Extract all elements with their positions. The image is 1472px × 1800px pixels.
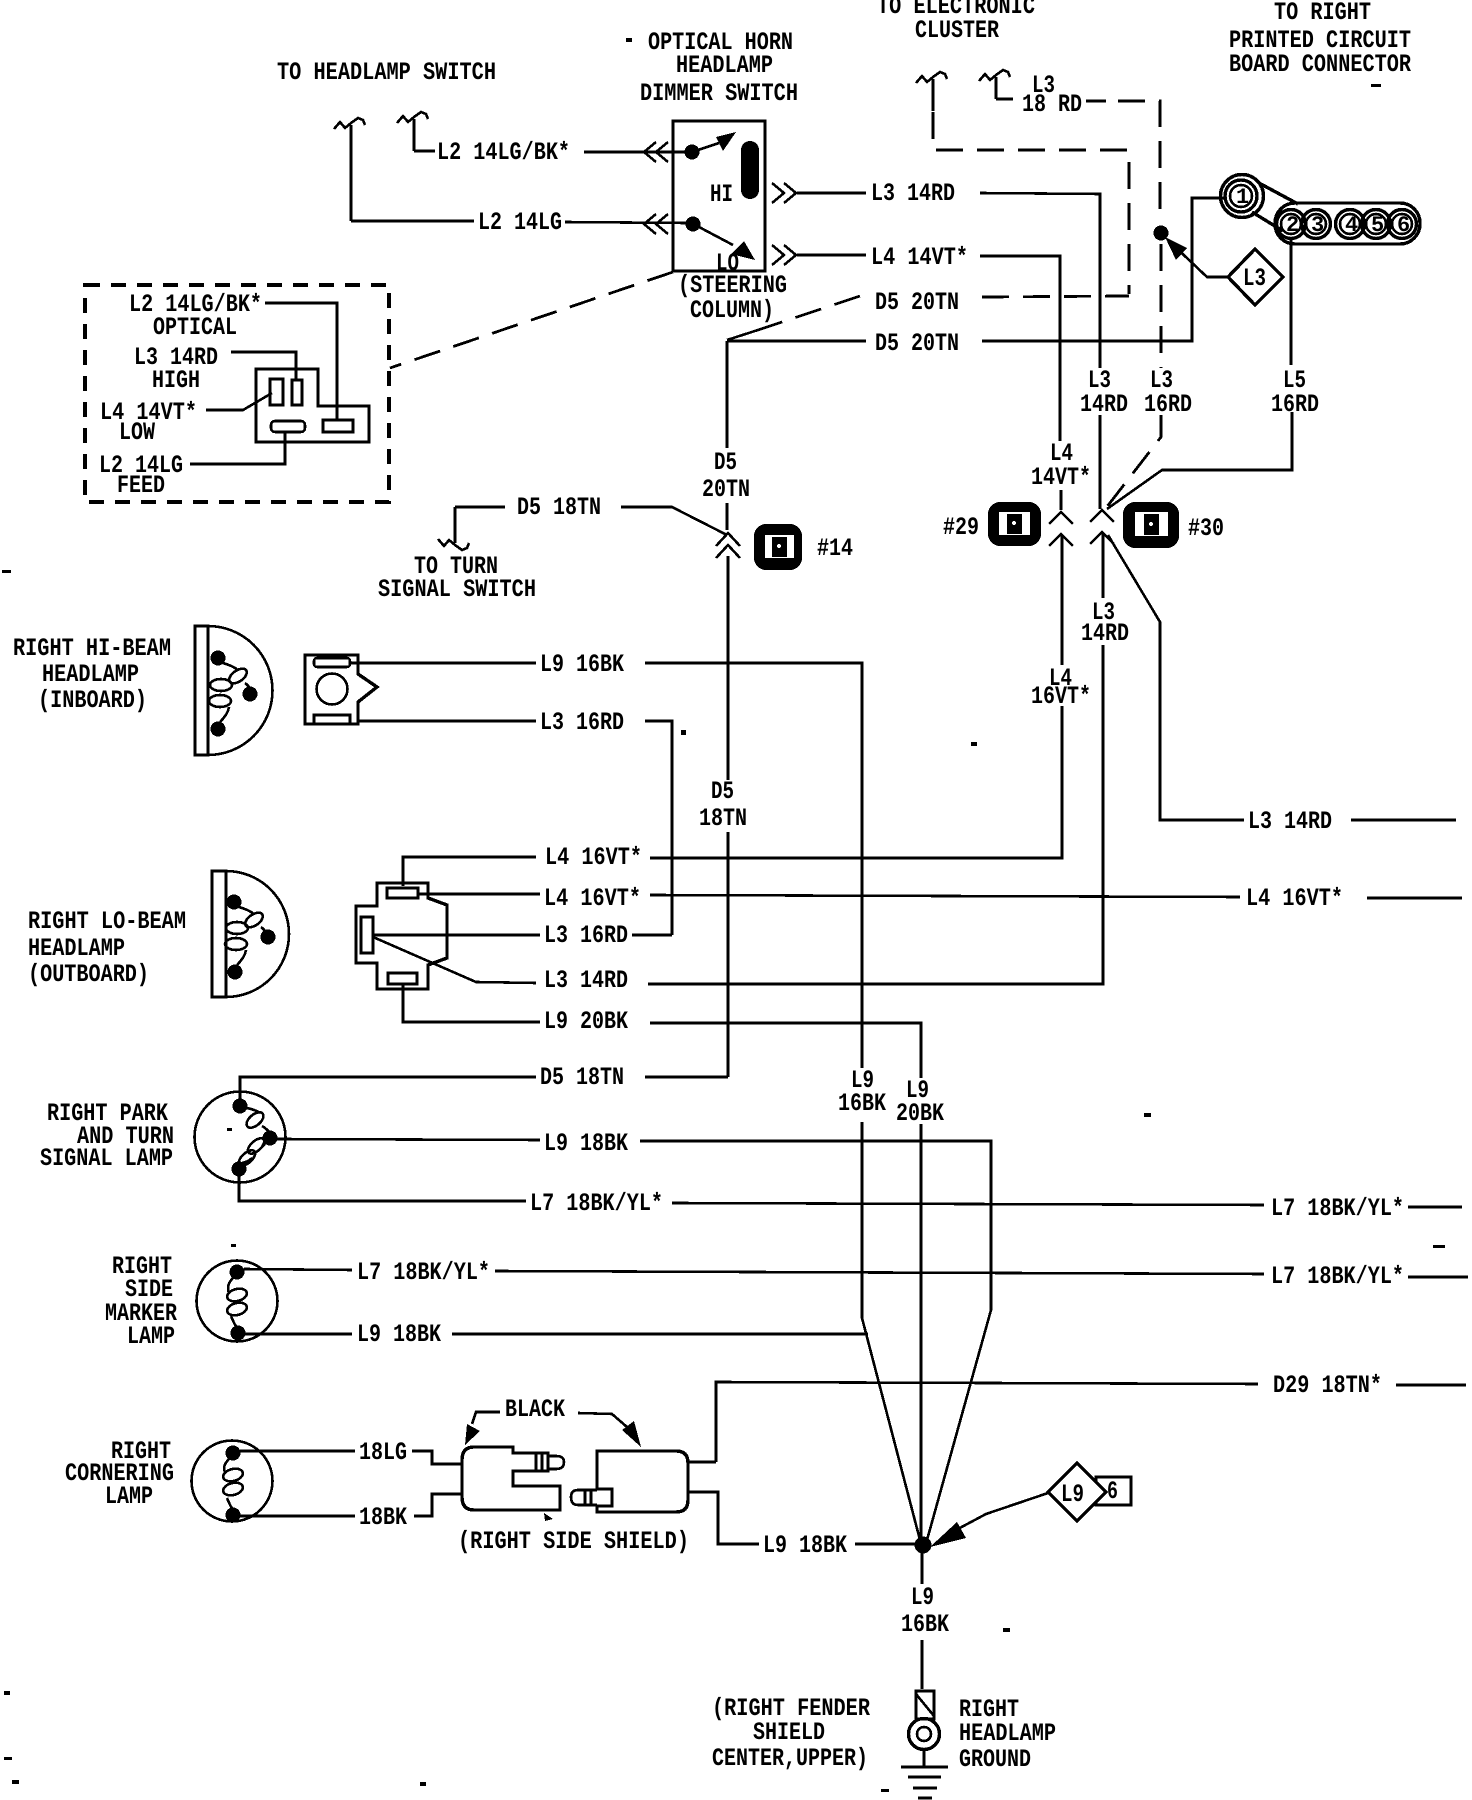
lo-beam connector left slot	[361, 917, 373, 953]
ground ring terminal	[909, 1719, 940, 1750]
wire L2 14LG	[351, 221, 686, 223]
detail connector pin slot A	[270, 379, 283, 405]
wire L3 14RD vertical into #30	[1099, 415, 1102, 509]
svg-text:D5: D5	[714, 448, 737, 477]
svg-text:5: 5	[1371, 213, 1384, 238]
svg-text:18LG: 18LG	[359, 1438, 407, 1467]
pin 2	[1277, 210, 1306, 239]
lo-beam filaments	[239, 907, 254, 914]
junction dot	[915, 1537, 932, 1554]
svg-text:(RIGHT SIDE SHIELD): (RIGHT SIDE SHIELD)	[458, 1527, 689, 1556]
pin 6	[1388, 210, 1417, 239]
svg-text:16RD: 16RD	[1271, 390, 1319, 419]
park/turn filaments	[247, 1108, 260, 1113]
svg-text:HI: HI	[710, 180, 733, 209]
wire L4 14VT* from dimmer LO	[797, 255, 1060, 441]
hi-beam lamp body	[195, 626, 208, 755]
wire D5 20TN vertical	[726, 341, 729, 530]
female arrow into dimmer (row 1)	[644, 142, 668, 162]
svg-text:14VT*: 14VT*	[1031, 463, 1091, 492]
speck	[626, 38, 632, 42]
wire L4 16VT* (row 2)	[417, 894, 1240, 897]
pin 1	[1225, 180, 1257, 212]
svg-text:16BK: 16BK	[838, 1089, 886, 1118]
svg-text:D5 18TN: D5 18TN	[540, 1063, 624, 1092]
LO contact dot	[686, 217, 701, 232]
svg-text:HEADLAMP: HEADLAMP	[959, 1719, 1056, 1748]
svg-text:D5 18TN: D5 18TN	[517, 493, 601, 522]
side marker terminal dots	[230, 1265, 245, 1280]
svg-text:#30: #30	[1188, 514, 1224, 543]
svg-text:#29: #29	[943, 513, 979, 542]
svg-text:#14: #14	[817, 534, 853, 563]
hi-beam filaments	[223, 663, 238, 670]
#30 symbol	[1123, 502, 1179, 548]
wire D5 below #14	[727, 556, 730, 1077]
wire L3 16RD (lo-beam)	[373, 934, 672, 937]
svg-text:L3 16RD: L3 16RD	[540, 708, 624, 737]
wire to OPTICAL pin	[265, 303, 337, 421]
svg-text:14RD: 14RD	[1080, 390, 1128, 419]
svg-text:COLUMN): COLUMN)	[690, 296, 774, 325]
LO contact arm with arrowhead	[699, 227, 733, 245]
detail connector bottom slot	[271, 421, 305, 432]
wire 18LG	[240, 1451, 462, 1464]
wire L3 14RD from dimmer HI	[797, 193, 1100, 368]
connector symbol to headlamp switch (left)	[334, 118, 365, 221]
svg-text:L4 16VT*: L4 16VT*	[544, 884, 641, 913]
speck above side marker	[231, 1244, 236, 1247]
specks bottom left	[4, 1691, 10, 1695]
female arrow into dimmer (row 2)	[644, 214, 668, 234]
HI contact arm with arrowhead	[698, 143, 719, 150]
wire L4 16VT* right stub	[1367, 897, 1462, 900]
svg-text:14RD: 14RD	[1081, 619, 1129, 648]
connector #14 chevrons on D5	[716, 533, 740, 558]
lo-beam lamp body	[212, 871, 226, 997]
dashed pointer from dimmer box to detail box	[390, 272, 673, 368]
wire L9 18BK (park)	[277, 1139, 991, 1540]
HI contact dot	[685, 145, 700, 160]
#14 symbol	[754, 524, 802, 570]
lo-beam lamp terminal dots	[227, 895, 242, 910]
svg-text:HEADLAMP: HEADLAMP	[42, 660, 139, 689]
shield connector A body	[462, 1447, 560, 1510]
wire L9 16BK to ground	[920, 1553, 923, 1689]
connector symbol to electronic cluster (right)	[979, 70, 1010, 99]
wire L3 16RD (hi-beam)	[358, 721, 672, 935]
svg-text:BLACK: BLACK	[505, 1395, 565, 1424]
BLACK pointer arrow left	[472, 1412, 500, 1424]
svg-text:6: 6	[1107, 1477, 1118, 1506]
lo-beam connector body	[356, 883, 447, 989]
wire L7 right stub 2	[1408, 1276, 1468, 1279]
ground symbol	[901, 1750, 948, 1798]
L9 splice diamond with 6 box	[1096, 1477, 1131, 1505]
svg-text:L9 18BK: L9 18BK	[544, 1129, 628, 1158]
wire to HIGH pin	[231, 352, 296, 379]
wire L9 18BK (cornering)	[688, 1492, 915, 1544]
connector symbol to turn signal switch	[438, 507, 469, 550]
wire L9 16BK vertical and diagonal to junction	[862, 1122, 920, 1540]
wire L7 18BK/YL* (park)	[239, 1176, 1264, 1205]
svg-text:RIGHT HI-BEAM: RIGHT HI-BEAM	[13, 634, 171, 663]
dashed wire D5 20TN to steering column diagonal	[727, 330, 758, 340]
cornering filaments	[224, 1459, 229, 1472]
wire L4 into #29	[1060, 490, 1063, 510]
switch contact bar	[741, 141, 759, 199]
splice arrow from L3 diamond to junction dot	[1170, 242, 1228, 277]
side marker filaments	[228, 1278, 233, 1293]
park/turn lamp body	[195, 1092, 286, 1183]
wire D29 18TN*	[716, 1382, 1466, 1462]
svg-text:L7 18BK/YL*: L7 18BK/YL*	[357, 1258, 490, 1287]
svg-text:L4 14VT*: L4 14VT*	[871, 243, 968, 272]
cornering lamp terminal dots	[226, 1446, 241, 1461]
svg-text:18BK: 18BK	[359, 1503, 407, 1532]
svg-text:LAMP: LAMP	[105, 1482, 153, 1511]
hi-beam connector bottom slot	[314, 715, 350, 724]
dashed detail box	[85, 285, 389, 502]
svg-text:D5 20TN: D5 20TN	[875, 329, 959, 358]
wire L3 14RD below #30	[373, 534, 1103, 984]
PCB connector housing	[1221, 175, 1264, 218]
svg-text:D5 20TN: D5 20TN	[875, 288, 959, 317]
svg-text:3: 3	[1311, 213, 1324, 238]
cornering lamp body	[192, 1441, 273, 1522]
shield connector B nipple	[571, 1490, 597, 1505]
dashed wire L3 16RD below dot	[1106, 244, 1161, 508]
svg-text:RIGHT LO-BEAM: RIGHT LO-BEAM	[28, 907, 186, 936]
svg-text:18TN: 18TN	[699, 804, 747, 833]
svg-text:HIGH: HIGH	[152, 366, 200, 395]
park/turn terminal dots	[233, 1099, 248, 1114]
svg-text:4: 4	[1345, 213, 1358, 238]
svg-text:D29 18TN*: D29 18TN*	[1273, 1371, 1382, 1400]
pin 4	[1336, 210, 1365, 239]
detail connector pin slot B	[292, 380, 302, 405]
detail connector body	[256, 369, 369, 442]
dashed wire D5 to cluster	[933, 112, 1129, 294]
svg-text:LAMP: LAMP	[127, 1322, 175, 1351]
connector #30 chevrons	[1090, 510, 1114, 544]
wire L9 16BK	[350, 663, 862, 1068]
svg-text:L9 18BK: L9 18BK	[357, 1320, 441, 1349]
connector symbol to headlamp switch (right)	[397, 112, 428, 151]
svg-text:SIGNAL SWITCH: SIGNAL SWITCH	[378, 575, 536, 604]
male arrow out of dimmer LO	[772, 245, 796, 265]
wire to LOW pin	[206, 393, 272, 410]
wire L2 14LG/BK*	[414, 151, 686, 152]
speck	[1371, 84, 1381, 87]
hi-beam connector circle	[317, 674, 348, 705]
svg-text:L2 14LG: L2 14LG	[478, 208, 562, 237]
wire L7 18BK/YL* (side marker)	[244, 1269, 1264, 1274]
detail connector extension slot	[323, 420, 353, 432]
svg-text:16RD: 16RD	[1144, 390, 1192, 419]
svg-text:GROUND: GROUND	[959, 1745, 1031, 1774]
splice arrow from L9 diamond to junction	[956, 1493, 1048, 1530]
branch wire L3 14RD to right edge	[1108, 535, 1456, 820]
male arrow out of dimmer HI	[772, 183, 796, 203]
wire L5 16RD from pin 2	[1107, 239, 1292, 509]
wire to FEED pin	[190, 432, 285, 464]
svg-text:SHIELD: SHIELD	[753, 1718, 825, 1747]
svg-text:L3 16RD: L3 16RD	[544, 921, 628, 950]
svg-text:OPTICAL: OPTICAL	[153, 313, 237, 342]
svg-text:L7 18BK/YL*: L7 18BK/YL*	[530, 1189, 663, 1218]
svg-text:FEED: FEED	[117, 471, 165, 500]
svg-text:18 RD: 18 RD	[1022, 90, 1082, 119]
svg-text:16VT*: 16VT*	[1031, 682, 1091, 711]
shield connector B body	[597, 1451, 688, 1512]
connector symbol to electronic cluster (left)	[916, 72, 947, 111]
wire D5 18TN (to park lamp)	[240, 1077, 728, 1099]
lo-beam connector top slot	[387, 888, 418, 898]
svg-text:L3 14RD: L3 14RD	[1248, 807, 1332, 836]
lo-beam connector bottom slot	[388, 973, 417, 984]
svg-text:CENTER,UPPER): CENTER,UPPER)	[712, 1744, 868, 1773]
wire D5 20TN solid	[727, 198, 1224, 341]
wire L4 16VT* below #29	[403, 536, 1062, 886]
hi-beam connector top slot	[314, 658, 350, 667]
svg-text:L4 16VT*: L4 16VT*	[545, 843, 642, 872]
#29 symbol	[988, 502, 1041, 546]
svg-text:TO RIGHT: TO RIGHT	[1274, 0, 1371, 27]
pin 5	[1362, 210, 1391, 239]
shield connector A nipple	[536, 1453, 564, 1471]
wire L7 right stub 1	[1408, 1206, 1462, 1209]
L3 splice diamond	[1228, 249, 1283, 305]
svg-text:1: 1	[1236, 185, 1249, 210]
svg-text:L7 18BK/YL*: L7 18BK/YL*	[1271, 1262, 1404, 1291]
wire D5 18TN upper	[455, 507, 727, 535]
svg-text:L9: L9	[1061, 1480, 1084, 1509]
svg-text:20BK: 20BK	[896, 1099, 944, 1128]
svg-text:L4 16VT*: L4 16VT*	[1246, 884, 1343, 913]
dashed wire L3 18RD	[1086, 100, 1106, 103]
svg-text:L9 20BK: L9 20BK	[544, 1007, 628, 1036]
svg-text:L3 14RD: L3 14RD	[871, 179, 955, 208]
svg-text:(INBOARD): (INBOARD)	[38, 686, 147, 715]
svg-text:SIGNAL LAMP: SIGNAL LAMP	[40, 1144, 173, 1173]
hi-beam lamp terminal dots	[211, 651, 226, 666]
hi-beam connector body	[305, 655, 377, 724]
svg-text:BOARD CONNECTOR: BOARD CONNECTOR	[1229, 50, 1411, 79]
connector #29 chevrons	[1049, 512, 1073, 546]
svg-text:(OUTBOARD): (OUTBOARD)	[28, 960, 149, 989]
speck	[681, 730, 686, 735]
svg-text:CLUSTER: CLUSTER	[915, 16, 999, 45]
dimmer switch box	[673, 121, 765, 271]
svg-text:L3: L3	[1243, 264, 1266, 293]
speck below connector A	[544, 1513, 553, 1521]
svg-text:LOW: LOW	[119, 418, 155, 447]
side marker lamp body	[197, 1261, 278, 1342]
speck right	[1433, 1245, 1445, 1248]
svg-text:DIMMER SWITCH: DIMMER SWITCH	[640, 79, 798, 108]
svg-text:20TN: 20TN	[702, 475, 750, 504]
svg-text:L3 14RD: L3 14RD	[544, 966, 628, 995]
svg-text:HEADLAMP: HEADLAMP	[28, 934, 125, 963]
svg-text:L9 16BK: L9 16BK	[540, 650, 624, 679]
svg-text:D5: D5	[711, 777, 734, 806]
junction dot on L3 dashed wire	[1154, 226, 1169, 241]
pin 3	[1302, 210, 1331, 239]
svg-text:6: 6	[1397, 213, 1410, 238]
svg-text:L9 18BK: L9 18BK	[763, 1531, 847, 1560]
speck in park lamp	[227, 1128, 232, 1131]
dashed D5 20TN right segment	[982, 296, 1129, 297]
wire L9 18BK (side marker)	[245, 1333, 868, 1336]
svg-text:TO HEADLAMP SWITCH: TO HEADLAMP SWITCH	[277, 58, 496, 87]
BLACK pointer arrow right	[578, 1413, 627, 1427]
svg-text:HEADLAMP: HEADLAMP	[676, 51, 773, 80]
wire L9 20BK	[403, 984, 921, 1545]
ground screw	[916, 1691, 934, 1719]
svg-text:2: 2	[1286, 213, 1299, 238]
svg-text:L2 14LG/BK*: L2 14LG/BK*	[437, 138, 570, 167]
svg-text:L7 18BK/YL*: L7 18BK/YL*	[1271, 1194, 1404, 1223]
svg-text:L9: L9	[911, 1583, 934, 1612]
wire from connector B to D29 row	[688, 1461, 716, 1464]
svg-text:16BK: 16BK	[901, 1610, 949, 1639]
wire 18BK	[240, 1494, 462, 1516]
